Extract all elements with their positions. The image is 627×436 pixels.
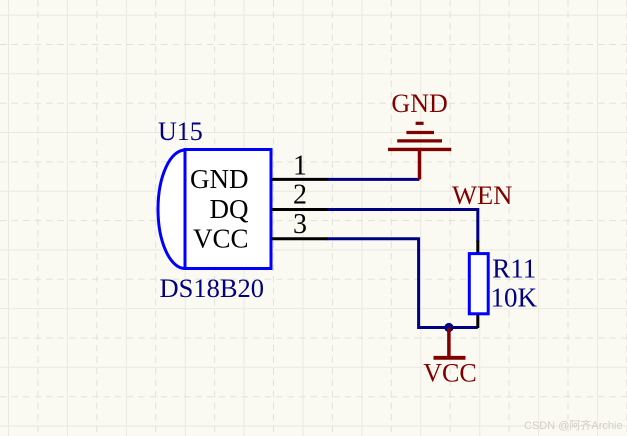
svg-text:10K: 10K: [491, 283, 538, 313]
component U15 body (DS18B20 D-shape): [158, 150, 271, 269]
svg-text:VCC: VCC: [193, 223, 249, 253]
pin 2 name DQ: [210, 194, 249, 224]
svg-text:GND: GND: [190, 164, 249, 194]
svg-text:U15: U15: [158, 117, 203, 146]
svg-text:2: 2: [293, 180, 307, 211]
svg-text:3: 3: [293, 209, 307, 240]
resistor R11 top pin stub: [476, 241, 479, 256]
power net label GND: [391, 89, 447, 118]
wire pin1 to ground: [328, 178, 420, 181]
value 10K: [491, 283, 538, 313]
pin 2 number: [293, 180, 307, 211]
ground symbol: [388, 123, 451, 179]
pin 3 (VCC) stub: [271, 237, 328, 240]
pin 3 number: [293, 209, 307, 240]
wire pin2 to WEN/R11: [328, 210, 478, 243]
net label WEN: [452, 180, 512, 210]
value DS18B20: [160, 273, 265, 303]
svg-text:VCC: VCC: [423, 359, 476, 388]
svg-text:R11: R11: [492, 254, 536, 284]
power symbol VCC: [434, 328, 466, 358]
svg-text:1: 1: [293, 151, 307, 182]
pin 2 (DQ) stub: [271, 208, 328, 211]
resistor R11 bottom pin stub: [476, 313, 479, 328]
svg-text:DS18B20: DS18B20: [160, 273, 265, 303]
pin 3 name VCC: [193, 223, 249, 253]
pin 1 number: [293, 151, 307, 182]
power net label VCC: [423, 359, 476, 388]
svg-text:WEN: WEN: [452, 180, 512, 210]
designator R11: [492, 254, 536, 284]
junction dot: [444, 323, 453, 332]
watermark: [524, 418, 623, 432]
svg-text:CSDN @阿齐Archie: CSDN @阿齐Archie: [524, 418, 623, 432]
pin 1 name GND: [190, 164, 249, 194]
svg-text:GND: GND: [391, 89, 447, 118]
svg-text:DQ: DQ: [210, 194, 249, 224]
pin 1 (GND) stub: [271, 178, 328, 181]
resistor R11 body: [469, 254, 488, 314]
designator U15: [158, 117, 203, 146]
wire pin3 to junction: [328, 239, 478, 328]
